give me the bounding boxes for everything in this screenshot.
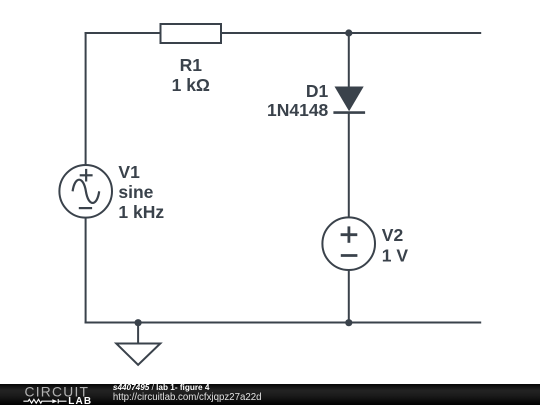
wire: top rail right stub (node to open end) (349, 32, 481, 34)
wire: V1 negative terminal down to bottom-left corner (85, 217, 87, 323)
voltage source V1 (sine) body circle (59, 165, 112, 218)
svg-text:LAB: LAB (68, 395, 92, 405)
wire: top rail middle segment (R1 right lead to node) (221, 32, 349, 34)
V1 plus sign (80, 174, 93, 176)
ground (stub wire) (137, 323, 139, 344)
V2 plus sign (341, 233, 358, 236)
svg-text:sine: sine (118, 182, 153, 202)
junction node: bottom rail / ground tap (135, 319, 142, 326)
diode D1 (triangle) (335, 87, 364, 112)
svg-text:1 V: 1 V (382, 245, 409, 265)
voltage source V2 body circle (322, 217, 375, 270)
wire: top rail left segment (corner to R1 left lead) (85, 32, 161, 34)
svg-text:V2: V2 (382, 225, 404, 245)
wire: diode branch from top node to D1 anode (348, 33, 350, 88)
svg-text:D1: D1 (306, 81, 329, 101)
V1 sine waveform (73, 180, 100, 203)
wire: left vertical from top rail down to V1 plus terminal (85, 32, 87, 165)
CircuitLab logo (20, 385, 120, 405)
wire: D1 cathode to V2 positive terminal (348, 113, 350, 219)
junction node: bottom rail / V2 branch (345, 319, 352, 326)
V2 minus sign (341, 254, 358, 257)
svg-text:1N4148: 1N4148 (267, 100, 329, 120)
footer title: s4407495 / lab 1- figure 4 (113, 384, 210, 392)
svg-text:1 kHz: 1 kHz (118, 202, 164, 222)
wire: bottom rail right stub (node to open end) (349, 322, 481, 324)
wire: bottom rail middle segment (ground tap to V2 branch node) (138, 322, 349, 324)
diode D1 cathode bar (333, 111, 365, 114)
wire: bottom rail left segment (corner to ground tap) (85, 322, 139, 324)
svg-text:1 kΩ: 1 kΩ (172, 75, 210, 95)
V1 minus sign (79, 207, 92, 209)
svg-text:V1: V1 (118, 162, 140, 182)
footer bar (0, 384, 540, 405)
resistor R1 (161, 24, 222, 43)
wire: V2 negative terminal to bottom rail (348, 270, 350, 323)
junction node: top rail / diode branch (345, 29, 352, 36)
svg-text:R1: R1 (180, 55, 203, 75)
footer url (113, 393, 262, 403)
ground (triangle symbol) (116, 344, 160, 365)
